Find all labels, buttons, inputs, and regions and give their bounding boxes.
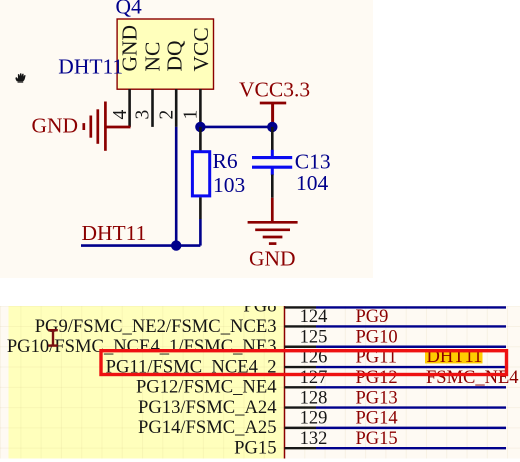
svg-text:C13: C13	[295, 150, 331, 174]
svg-text:103: 103	[213, 173, 245, 197]
svg-text:1: 1	[181, 110, 202, 120]
pin PG9 stub	[285, 325, 317, 327]
selection rectangle (red)	[101, 351, 507, 375]
power port VCC3.3 bar	[260, 103, 286, 127]
pin 1 stub	[199, 89, 202, 122]
svg-text:3: 3	[133, 110, 154, 120]
wire PG12	[316, 386, 506, 388]
pin PG11 stub	[285, 366, 317, 368]
svg-text:128: 128	[300, 388, 328, 408]
svg-text:2: 2	[156, 110, 177, 120]
resistor R6 top lead	[199, 127, 202, 151]
faint schematic grid	[0, 306, 520, 459]
junction at VCC column	[267, 122, 277, 132]
svg-text:129: 129	[300, 409, 328, 429]
resistor R6 body	[192, 152, 209, 196]
junction at pin1	[195, 122, 205, 132]
power port GND (bottom) stem	[271, 198, 274, 222]
svg-text:Q4: Q4	[116, 0, 143, 19]
svg-text:PG9: PG9	[356, 307, 389, 327]
svg-text:127: 127	[300, 368, 328, 388]
top schematic crop background	[0, 0, 373, 278]
bottom crop cream background	[0, 306, 520, 459]
svg-text:PG15: PG15	[356, 429, 398, 449]
svg-text:R6: R6	[213, 149, 238, 173]
wire PG9	[316, 325, 506, 327]
svg-text:GND: GND	[249, 246, 296, 270]
pin 3 stub	[151, 89, 154, 127]
svg-text:DQ: DQ	[163, 40, 187, 72]
highlight DHT11	[425, 352, 483, 364]
pin PG10 stub	[285, 346, 317, 348]
capacitor C13 bottom lead	[271, 175, 274, 198]
svg-text:PG14: PG14	[356, 409, 398, 429]
svg-text:PG14/FSMC_A25: PG14/FSMC_A25	[138, 417, 276, 438]
wire R6 bottom vertical	[199, 219, 202, 246]
svg-text:PG10/FSMC_NCE4_1/FSMC_NE3: PG10/FSMC_NCE4_1/FSMC_NE3	[7, 336, 277, 357]
svg-text:PG9/FSMC_NE2/FSMC_NCE3: PG9/FSMC_NE2/FSMC_NCE3	[35, 316, 277, 337]
wire PG15	[316, 447, 506, 449]
pin PG14 stub	[285, 427, 317, 429]
svg-text:DHT11: DHT11	[58, 54, 123, 78]
junction at DHT11 wire	[171, 240, 181, 250]
svg-text:GND: GND	[32, 113, 79, 137]
pin PG12 stub	[285, 386, 317, 388]
svg-text:PG12/FSMC_NE4: PG12/FSMC_NE4	[136, 377, 277, 398]
svg-text:VCC3.3: VCC3.3	[239, 78, 310, 102]
svg-text:PG15: PG15	[234, 437, 276, 458]
MCU component body (yellow)	[9, 306, 285, 459]
power port GND (bottom) bars	[248, 222, 298, 243]
resistor R6 bottom lead	[199, 197, 202, 219]
svg-text:124: 124	[300, 307, 328, 327]
svg-text:DHT11: DHT11	[82, 221, 147, 245]
pin 2 stub	[175, 89, 178, 127]
wire PG13	[316, 406, 506, 408]
wire pin1 to VCC column	[200, 126, 272, 129]
wire PG8	[316, 306, 506, 308]
pin PG8 stub	[285, 306, 317, 308]
wire PG14	[316, 427, 506, 429]
svg-text:4: 4	[110, 110, 131, 120]
svg-text:NC: NC	[141, 42, 165, 72]
hand cursor	[15, 73, 25, 82]
svg-text:PG13/FSMC_A24: PG13/FSMC_A24	[138, 397, 276, 418]
wire pin2 vertical	[175, 127, 178, 246]
svg-text:104: 104	[296, 171, 329, 195]
wire DHT11 horizontal	[81, 244, 200, 247]
svg-text:125: 125	[300, 327, 328, 347]
capacitor C13 plates	[252, 150, 292, 175]
pin PG13 stub	[285, 406, 317, 408]
pin 4 stub	[128, 89, 131, 127]
power port GND (left, rotated)	[84, 102, 131, 151]
pin PG15 stub	[285, 447, 317, 449]
svg-text:FSMC_NE4: FSMC_NE4	[426, 368, 519, 388]
svg-text:PG12: PG12	[356, 368, 398, 388]
component U: DHT11 body box	[117, 19, 213, 89]
svg-text:PG10: PG10	[356, 327, 398, 347]
MCU body right border	[284, 306, 286, 459]
svg-text:PG13: PG13	[356, 388, 398, 408]
wire PG10	[316, 346, 506, 348]
wire PG11	[316, 366, 506, 368]
capacitor C13 top lead	[271, 127, 274, 150]
svg-text:132: 132	[300, 429, 328, 449]
svg-text:VCC: VCC	[189, 27, 213, 71]
I-beam text cursor	[48, 330, 58, 345]
